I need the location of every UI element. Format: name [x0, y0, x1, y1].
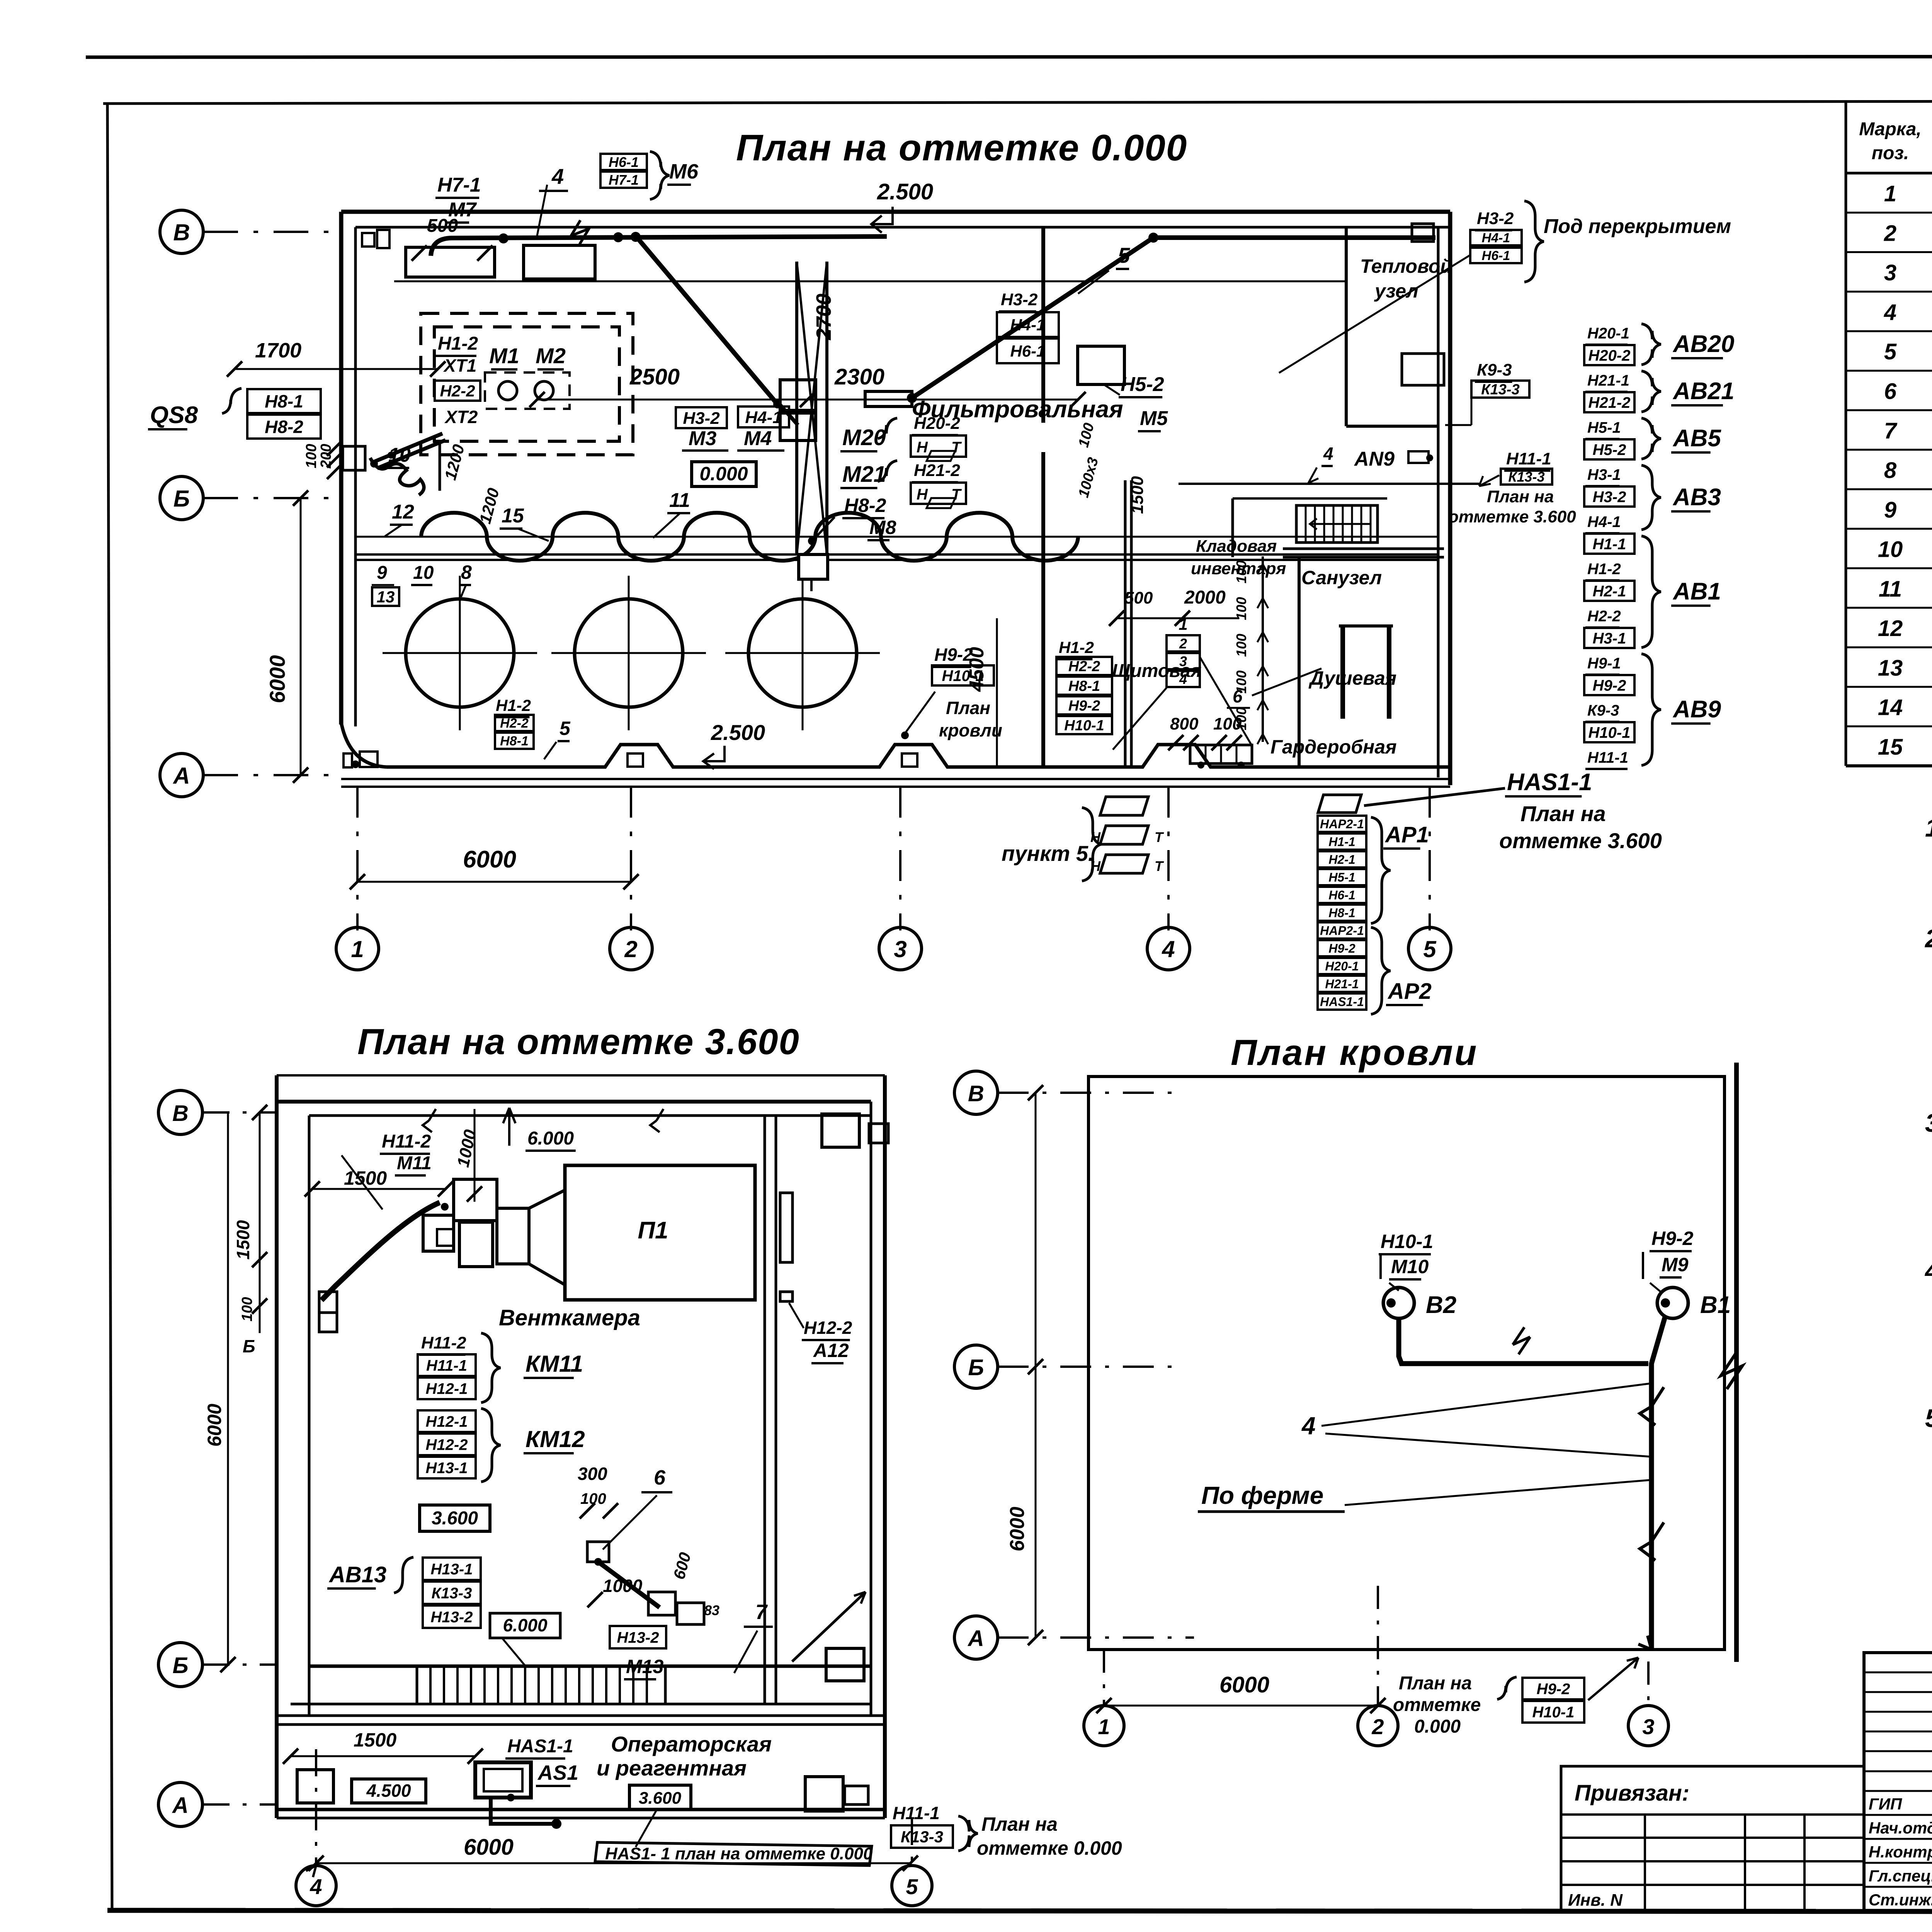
6.000 elevation mark [508, 1108, 510, 1146]
svg-text:100: 100 [239, 1297, 255, 1321]
svg-text:2: 2 [1884, 221, 1896, 246]
svg-text:КМ11: КМ11 [526, 1351, 583, 1377]
revision grid [1864, 1653, 1932, 1911]
svg-text:Марка,: Марка, [1859, 119, 1922, 139]
svg-text:В1: В1 [1700, 1292, 1731, 1318]
plan 3.600 outline [277, 1074, 885, 1077]
bottom right box [826, 1648, 864, 1681]
3.600 box strip [629, 1785, 691, 1810]
svg-text:4500: 4500 [966, 647, 988, 692]
svg-text:15: 15 [502, 505, 524, 527]
svg-text:План на: План на [1520, 801, 1606, 826]
operator strip [277, 1714, 885, 1717]
svg-text:300: 300 [578, 1464, 607, 1484]
svg-text:2700: 2700 [812, 294, 835, 340]
svg-text:Т: Т [951, 439, 962, 456]
svg-text:М8: М8 [869, 517, 896, 538]
svg-text:К13-3: К13-3 [432, 1585, 472, 1602]
axis B line through building [355, 536, 1438, 538]
svg-text:К13-3: К13-3 [901, 1828, 943, 1846]
parallelogram stacks below [1100, 797, 1148, 815]
tall column with X bracing [795, 262, 798, 554]
svg-text:Н2-2: Н2-2 [1068, 658, 1100, 675]
svg-text:Н4-1: Н4-1 [1587, 514, 1621, 531]
svg-text:АР1: АР1 [1384, 822, 1429, 847]
cables top area [431, 236, 887, 256]
svg-text:Т: Т [951, 486, 962, 503]
svg-text:НАS1-1: НАS1-1 [1507, 769, 1592, 796]
svg-text:Н21-1: Н21-1 [1325, 977, 1359, 991]
svg-text:А12: А12 [813, 1340, 849, 1361]
axes plan 0.000 [160, 210, 203, 253]
svg-text:План на отметке 3.600: План на отметке 3.600 [357, 1021, 800, 1062]
roof axes [954, 1071, 998, 1114]
svg-text:Н4-1: Н4-1 [1010, 316, 1045, 334]
svg-text:Н12-2: Н12-2 [804, 1318, 852, 1338]
parts table [1845, 101, 1847, 766]
B1 cable [1657, 1287, 1688, 1318]
svg-text:100: 100 [1233, 560, 1249, 583]
B2 cable [1383, 1287, 1414, 1318]
svg-text:П1: П1 [638, 1217, 668, 1244]
svg-text:3.600: 3.600 [639, 1789, 682, 1808]
AS1 box cable [475, 1762, 531, 1798]
svg-text:800: 800 [1170, 714, 1199, 733]
svg-text:По ферме: По ферме [1201, 1481, 1323, 1509]
svg-text:АР2: АР2 [1387, 979, 1432, 1004]
svg-text:Н.контр.: Н.контр. [1869, 1843, 1932, 1861]
svg-text:Инв. N: Инв. N [1568, 1891, 1623, 1910]
4.500 box [352, 1779, 426, 1803]
svg-text:Н2-2: Н2-2 [1587, 608, 1621, 625]
svg-text:Н9-2: Н9-2 [1537, 1680, 1570, 1697]
svg-text:Н13-1: Н13-1 [431, 1561, 473, 1578]
svg-text:К13-3: К13-3 [1481, 382, 1519, 398]
svg-text:6000: 6000 [1006, 1507, 1029, 1551]
svg-text:2.: 2. [1924, 924, 1932, 953]
svg-text:Н6-1: Н6-1 [1482, 248, 1510, 263]
svg-text:5: 5 [560, 718, 571, 739]
svg-text:1500: 1500 [1128, 476, 1147, 514]
svg-text:Н3-2: Н3-2 [683, 409, 720, 428]
svg-text:Н2-2: Н2-2 [440, 382, 475, 400]
svg-text:Н1-2: Н1-2 [1059, 638, 1094, 656]
svg-text:АВ1: АВ1 [1672, 578, 1721, 605]
svg-text:Н20-2: Н20-2 [1588, 347, 1631, 364]
svg-text:Н21-1: Н21-1 [1587, 372, 1629, 389]
svg-text:Под перекрытием: Под перекрытием [1544, 215, 1731, 238]
svg-text:4: 4 [1884, 300, 1896, 325]
svg-text:отметке 3.600: отметке 3.600 [1499, 828, 1662, 853]
svg-text:Н13-2: Н13-2 [431, 1609, 473, 1626]
svg-text:5.: 5. [1925, 1404, 1932, 1432]
svg-text:13: 13 [1878, 655, 1903, 680]
svg-text:Н: Н [917, 486, 928, 503]
svg-text:КМ12: КМ12 [526, 1426, 585, 1452]
svg-text:4: 4 [1179, 671, 1187, 687]
cable cluster low [587, 1542, 609, 1562]
svg-text:АВ20: АВ20 [1672, 331, 1735, 357]
svg-text:Н3-1: Н3-1 [1587, 466, 1621, 483]
svg-text:Н3-2: Н3-2 [1477, 209, 1514, 228]
svg-text:М9: М9 [1662, 1254, 1689, 1276]
equipment boxes top [406, 247, 495, 277]
svg-text:1: 1 [1884, 181, 1896, 206]
svg-text:ГИП: ГИП [1869, 1795, 1902, 1813]
svg-text:Н8-2: Н8-2 [265, 417, 303, 437]
svg-text:Н10-1: Н10-1 [1588, 724, 1631, 741]
svg-text:Н2-1: Н2-1 [1593, 583, 1626, 600]
frame border [103, 100, 1932, 104]
left cable cluster [374, 434, 442, 462]
svg-text:АВ9: АВ9 [1672, 696, 1721, 723]
svg-text:10: 10 [388, 444, 411, 466]
bottom-left corner boxes [344, 753, 352, 767]
top right boxes 3600 [822, 1114, 859, 1147]
svg-text:100: 100 [303, 444, 320, 468]
sheet trim line top [86, 56, 1932, 57]
svg-text:Н12-2: Н12-2 [426, 1436, 468, 1453]
svg-text:12: 12 [392, 501, 414, 523]
svg-text:Н10-1: Н10-1 [1532, 1704, 1575, 1721]
dashed unit rects M1 M2 [421, 313, 633, 455]
svg-text:Н1-1: Н1-1 [1328, 835, 1355, 849]
thick cable 3.600 [321, 1202, 440, 1300]
svg-text:9: 9 [377, 563, 387, 583]
svg-text:Н6-1: Н6-1 [1010, 342, 1045, 360]
svg-text:1500: 1500 [233, 1220, 253, 1260]
svg-text:1: 1 [1098, 1714, 1110, 1739]
svg-text:План на: План на [1487, 487, 1554, 506]
svg-text:1.: 1. [1925, 813, 1932, 842]
svg-text:Н20-1: Н20-1 [1325, 959, 1359, 973]
svg-text:Н10-1: Н10-1 [1381, 1231, 1433, 1252]
svg-text:Н11-1: Н11-1 [1506, 449, 1551, 468]
svg-text:2500: 2500 [629, 364, 680, 389]
svg-text:100: 100 [1213, 714, 1242, 733]
svg-text:План кровли: План кровли [1231, 1032, 1478, 1073]
svg-text:10: 10 [1878, 537, 1903, 562]
svg-text:4.: 4. [1924, 1256, 1932, 1285]
svg-text:6.000: 6.000 [503, 1615, 548, 1635]
svg-text:3: 3 [1884, 260, 1896, 286]
label 0.000 [692, 462, 756, 486]
svg-text:План на: План на [1399, 1673, 1472, 1694]
svg-text:2300: 2300 [834, 364, 884, 389]
svg-text:200: 200 [318, 444, 334, 469]
svg-text:7: 7 [1884, 418, 1898, 444]
building outline plan 0.000 [341, 210, 1450, 214]
6.000 box low [490, 1613, 560, 1638]
svg-text:Н20-1: Н20-1 [1587, 325, 1629, 342]
left vertical dim [300, 498, 302, 775]
svg-text:пункт 5.: пункт 5. [1002, 841, 1094, 866]
left rotated dims 3.600 [259, 1112, 261, 1333]
svg-text:Н1-2: Н1-2 [1587, 561, 1621, 578]
svg-text:Н2-2: Н2-2 [500, 716, 529, 731]
svg-text:Н: Н [917, 439, 928, 456]
svg-text:АВ21: АВ21 [1672, 378, 1735, 405]
svg-text:М7: М7 [448, 199, 477, 221]
svg-text:6000: 6000 [265, 655, 289, 703]
svg-text:Н6-1: Н6-1 [1328, 888, 1355, 902]
svg-text:Гардеробная: Гардеробная [1270, 736, 1397, 758]
svg-text:Н13-2: Н13-2 [617, 1629, 659, 1646]
svg-text:Н8-2: Н8-2 [844, 495, 886, 516]
svg-text:QS8: QS8 [150, 402, 198, 429]
svg-text:Н7-1: Н7-1 [437, 174, 481, 196]
break marks top wall 3600 [423, 1109, 436, 1132]
svg-text:4: 4 [1323, 444, 1333, 464]
svg-text:Н12-1: Н12-1 [426, 1380, 468, 1397]
svg-text:НАS1- 1 план на отметке 0.000: НАS1- 1 план на отметке 0.000 [605, 1844, 873, 1863]
svg-text:500: 500 [1124, 588, 1153, 607]
svg-text:НАР2-1: НАР2-1 [1320, 924, 1364, 938]
svg-text:10: 10 [413, 563, 434, 583]
svg-text:поз.: поз. [1872, 143, 1909, 163]
svg-text:Н5-1: Н5-1 [1587, 419, 1621, 436]
svg-text:14: 14 [1878, 695, 1903, 720]
svg-text:6000: 6000 [204, 1404, 225, 1447]
svg-text:Н4-1: Н4-1 [1482, 231, 1510, 245]
HAS1-1 line bottom [595, 1842, 872, 1866]
svg-text:1700: 1700 [255, 339, 301, 362]
svg-text:Н9-2: Н9-2 [1328, 942, 1355, 956]
svg-text:83: 83 [704, 1602, 719, 1618]
svg-text:М3: М3 [689, 427, 716, 450]
svg-text:К13-3: К13-3 [1508, 469, 1544, 485]
thin line y728 [394, 281, 1345, 282]
svg-text:0.000: 0.000 [699, 463, 748, 485]
svg-text:9: 9 [1884, 497, 1896, 522]
svg-text:Н11-2: Н11-2 [382, 1131, 431, 1152]
svg-text:М21: М21 [842, 462, 886, 487]
svg-text:100: 100 [1233, 634, 1249, 657]
svg-text:Н8-1: Н8-1 [1328, 906, 1355, 920]
svg-text:отметке: отметке [1393, 1695, 1481, 1715]
svg-text:3: 3 [894, 936, 906, 962]
svg-text:В2: В2 [1426, 1292, 1456, 1318]
svg-text:3: 3 [1642, 1714, 1654, 1739]
svg-text:Н11-1: Н11-1 [426, 1357, 467, 1374]
three hydrocyclone circles [406, 599, 514, 707]
svg-text:11: 11 [1879, 577, 1902, 602]
svg-text:Т: Т [1155, 858, 1164, 874]
svg-text:ХТ2: ХТ2 [444, 407, 478, 427]
svg-text:1500: 1500 [354, 1729, 396, 1751]
svg-text:Н2-1: Н2-1 [1328, 853, 1355, 867]
svg-text:4: 4 [551, 164, 564, 189]
right boxes strip [805, 1777, 843, 1811]
svg-text:4: 4 [1162, 936, 1175, 962]
svg-text:Н4-1: Н4-1 [745, 408, 782, 427]
svg-text:А: А [172, 1793, 189, 1818]
H12-2 A12 [780, 1193, 793, 1262]
svg-text:7: 7 [755, 1600, 768, 1624]
svg-text:В: В [968, 1081, 984, 1106]
svg-text:Н9-2: Н9-2 [1068, 698, 1100, 714]
svg-text:Б: Б [968, 1355, 984, 1380]
svg-text:НАР2-1: НАР2-1 [1320, 817, 1364, 831]
svg-text:Душевая: Душевая [1308, 667, 1396, 689]
svg-text:0.000: 0.000 [1414, 1716, 1461, 1737]
svg-text:6: 6 [1884, 379, 1897, 404]
svg-text:ХТ1: ХТ1 [443, 355, 476, 376]
svg-text:отметке 3.600: отметке 3.600 [1448, 507, 1576, 526]
svg-text:Н9-2: Н9-2 [1593, 677, 1626, 694]
svg-text:Фильтровальная: Фильтровальная [912, 396, 1123, 423]
roof outline [1088, 1077, 1725, 1650]
svg-text:М2: М2 [536, 344, 566, 368]
svg-text:Н1-1: Н1-1 [1593, 536, 1626, 553]
svg-text:План: План [946, 698, 990, 718]
svg-text:5: 5 [1118, 243, 1130, 267]
P1 unit [565, 1165, 755, 1300]
svg-text:13: 13 [377, 588, 395, 606]
bottom wall with bumps [341, 723, 386, 767]
svg-text:Н3-2: Н3-2 [1593, 488, 1626, 505]
svg-text:АS1: АS1 [537, 1761, 578, 1784]
machine boxes [780, 380, 816, 410]
svg-text:НАS1-1: НАS1-1 [507, 1736, 573, 1757]
svg-text:1: 1 [351, 936, 364, 962]
svg-text:Б: Б [243, 1336, 255, 1356]
svg-text:6: 6 [654, 1466, 666, 1489]
svg-text:Н1-2: Н1-2 [438, 333, 478, 354]
svg-text:Н21-2: Н21-2 [1588, 394, 1631, 411]
svg-text:6: 6 [1233, 686, 1243, 706]
svg-text:Н5-2: Н5-2 [1593, 441, 1626, 458]
svg-text:Б: Б [172, 1653, 188, 1678]
svg-text:6000: 6000 [1219, 1672, 1269, 1697]
svg-text:15: 15 [1878, 735, 1903, 760]
svg-text:2: 2 [1371, 1714, 1384, 1739]
svg-text:Н9-1: Н9-1 [1587, 655, 1621, 672]
svg-text:План на отметке 0.000: План на отметке 0.000 [736, 127, 1187, 168]
svg-text:5: 5 [1884, 339, 1897, 364]
svg-text:Н8-1: Н8-1 [265, 391, 303, 412]
svg-text:Н12-1: Н12-1 [426, 1413, 468, 1430]
title block [1561, 1766, 1864, 1911]
svg-text:М4: М4 [744, 427, 772, 450]
svg-text:Н3-2: Н3-2 [1001, 290, 1038, 309]
svg-text:Н10-1: Н10-1 [1064, 718, 1104, 734]
3.600 box [420, 1505, 490, 1531]
channel lines under wave [355, 553, 1438, 556]
svg-text:Н8-1: Н8-1 [500, 734, 529, 748]
svg-text:План на: План на [981, 1813, 1058, 1835]
svg-text:Санузел: Санузел [1301, 567, 1382, 588]
svg-text:5: 5 [906, 1874, 918, 1899]
inner wall x2700 [1041, 227, 1045, 423]
svg-text:М10: М10 [1391, 1256, 1429, 1277]
svg-text:М1: М1 [489, 344, 519, 368]
svg-text:Нач.отд.: Нач.отд. [1869, 1819, 1932, 1837]
svg-text:НАS1-1: НАS1-1 [1320, 995, 1364, 1009]
svg-text:Н13-1: Н13-1 [426, 1459, 468, 1476]
svg-text:8: 8 [1884, 458, 1897, 483]
sanuzel walls [1233, 497, 1387, 500]
svg-text:Т: Т [1155, 829, 1164, 845]
svg-text:Венткамера: Венткамера [499, 1305, 640, 1330]
labels M3 M4 [676, 407, 727, 428]
svg-text:6000: 6000 [464, 1835, 514, 1860]
svg-text:Операторская: Операторская [611, 1732, 772, 1756]
svg-text:3.600: 3.600 [432, 1508, 478, 1529]
svg-text:отметке 0.000: отметке 0.000 [977, 1837, 1122, 1859]
svg-text:2.500: 2.500 [711, 720, 765, 745]
svg-text:кровли: кровли [939, 720, 1002, 740]
axes 3.600 [158, 1090, 202, 1134]
svg-text:5: 5 [1423, 936, 1437, 962]
svg-text:4: 4 [310, 1874, 322, 1899]
stairs [1296, 505, 1378, 543]
svg-text:4: 4 [1301, 1412, 1316, 1440]
svg-text:М6: М6 [669, 160, 699, 183]
inner wall right corridor [764, 1116, 766, 1704]
svg-text:М11: М11 [397, 1153, 432, 1173]
svg-text:Ст.инж.: Ст.инж. [1869, 1891, 1932, 1909]
svg-text:А: А [967, 1626, 984, 1651]
svg-text:Н11-1: Н11-1 [1587, 749, 1628, 766]
svg-text:12: 12 [1878, 616, 1903, 641]
svg-text:Н5-2: Н5-2 [1121, 373, 1164, 396]
svg-text:Привязан:: Привязан: [1575, 1781, 1689, 1806]
svg-text:Н8-1: Н8-1 [1068, 678, 1100, 694]
right rooms partitions [1345, 227, 1348, 426]
svg-text:В: В [173, 219, 190, 245]
svg-text:3.: 3. [1925, 1109, 1932, 1137]
svg-text:4.500: 4.500 [366, 1781, 411, 1801]
svg-text:К9-3: К9-3 [1587, 702, 1619, 719]
svg-text:В: В [172, 1101, 189, 1126]
svg-text:А: А [172, 763, 190, 789]
svg-text:К9-3: К9-3 [1477, 361, 1512, 379]
svg-text:2: 2 [1179, 636, 1187, 651]
svg-text:Гл.спец.: Гл.спец. [1869, 1867, 1932, 1885]
svg-text:Н1-2: Н1-2 [496, 696, 531, 714]
svg-text:Н11-2: Н11-2 [421, 1333, 466, 1352]
svg-text:Н11-1: Н11-1 [893, 1803, 940, 1823]
svg-text:М5: М5 [1140, 407, 1168, 430]
svg-text:6000: 6000 [463, 846, 516, 873]
svg-text:8: 8 [461, 561, 472, 583]
svg-text:3: 3 [1179, 653, 1187, 669]
grill / stairs bottom [309, 1665, 871, 1668]
svg-text:Б: Б [173, 486, 190, 512]
svg-text:11: 11 [669, 489, 690, 512]
svg-text:2: 2 [624, 936, 637, 962]
svg-text:Кладовая: Кладовая [1196, 537, 1277, 556]
wavy line [421, 513, 1078, 561]
svg-text:и реагентная: и реагентная [597, 1756, 747, 1780]
svg-text:2.500: 2.500 [877, 179, 933, 204]
svg-text:2000: 2000 [1184, 587, 1226, 608]
svg-text:АN9: АN9 [1354, 448, 1395, 470]
svg-text:Н5-1: Н5-1 [1328, 871, 1355, 884]
svg-text:6.000: 6.000 [527, 1128, 574, 1149]
svg-text:АВ3: АВ3 [1672, 484, 1721, 511]
svg-text:Н6-1: Н6-1 [609, 154, 639, 170]
svg-text:100: 100 [1233, 597, 1249, 620]
svg-text:Н3-1: Н3-1 [1593, 630, 1626, 647]
svg-text:Н7-1: Н7-1 [609, 172, 639, 188]
svg-text:АВ5: АВ5 [1672, 425, 1722, 452]
svg-text:АВ13: АВ13 [328, 1562, 386, 1587]
svg-text:Н21-2: Н21-2 [914, 461, 960, 480]
misc leader top 3.600 [342, 1155, 383, 1209]
svg-text:Н9-2: Н9-2 [1651, 1228, 1694, 1249]
